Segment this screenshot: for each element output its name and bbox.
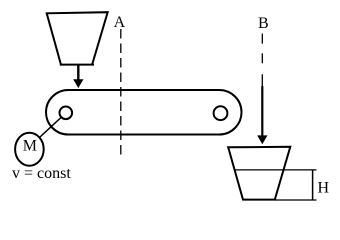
dashed part of line B bbox=[261, 34, 263, 87]
dashed section line A bbox=[120, 29, 122, 158]
right pulley roller bbox=[214, 106, 228, 120]
hopper A (feed funnel) bbox=[47, 12, 108, 64]
svg-text:v = const: v = const bbox=[12, 165, 71, 182]
arrow from hopper A (material falling onto belt) bbox=[73, 65, 83, 88]
motor M (circle) bbox=[15, 133, 44, 166]
dimension line H (vertical) bbox=[312, 170, 314, 200]
arrow B (material falling into container) bbox=[257, 86, 267, 144]
fill level line (extended to dimension) bbox=[234, 169, 316, 171]
svg-text:M: M bbox=[23, 138, 37, 155]
svg-text:A: A bbox=[114, 14, 126, 31]
svg-text:B: B bbox=[258, 15, 269, 32]
hopper A bottom edge bbox=[60, 64, 94, 66]
svg-text:H: H bbox=[318, 179, 330, 196]
container at B (trapezoidal bin) bbox=[228, 147, 290, 200]
left pulley roller bbox=[60, 107, 73, 120]
drive link from motor to left roller bbox=[40, 118, 61, 138]
conveyor belt (stadium outline) bbox=[46, 90, 242, 135]
bottom extension line for dimension bbox=[275, 199, 317, 201]
